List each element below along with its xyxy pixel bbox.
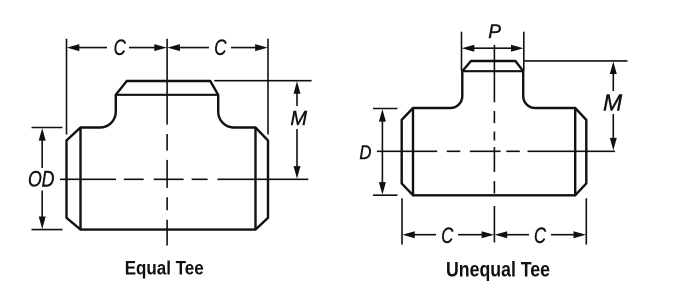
arrowhead M bottom (294, 166, 301, 179)
dimension P right extension line (523, 32, 525, 71)
svg-text:Unequal Tee: Unequal Tee (446, 258, 550, 281)
arrowhead OD top (39, 128, 46, 141)
dimension line C (right fig left half) (413, 234, 483, 236)
unequal tee left weld-bevel line (412, 108, 414, 195)
dimension C right extension line (267, 39, 269, 135)
arrowhead C3 left (402, 231, 415, 238)
dimension D bottom tick (373, 194, 398, 196)
arrowhead P left (462, 45, 475, 52)
svg-text:M: M (603, 90, 623, 116)
dimension line C (left half) (78, 47, 156, 49)
arrowhead D top (379, 109, 386, 122)
unequal tee horizontal centerline (377, 150, 615, 152)
arrowhead C4 right (574, 231, 587, 238)
svg-text:M: M (290, 108, 307, 130)
dimension line M vertical (296, 93, 298, 168)
svg-text:OD: OD (28, 167, 55, 192)
svg-text:C: C (441, 223, 453, 248)
dimension P left extension line (461, 32, 463, 71)
arrowhead M bottom (right figure) (610, 138, 617, 151)
arrowhead OD bottom (39, 217, 46, 230)
arrowhead D bottom (379, 182, 386, 195)
arrowhead C2 left (167, 44, 180, 51)
equal tee body outline (67, 81, 269, 230)
dimension C right extension line (right figure) (585, 198, 587, 244)
equal tee horizontal centerline (60, 178, 308, 180)
arrowhead C1 right (154, 44, 167, 51)
dimension OD top tick (32, 127, 63, 129)
dimension line P (473, 47, 512, 49)
equal tee vertical centerline (166, 39, 168, 246)
dimension M top extension line (214, 80, 311, 82)
unequal tee body outline (402, 61, 587, 195)
svg-text:C: C (534, 223, 546, 248)
dimension line C (right half) (179, 47, 257, 49)
equal tee left weld-bevel line (79, 128, 81, 230)
unequal tee right weld-bevel line (574, 108, 576, 195)
arrowhead M top (right figure) (610, 62, 617, 75)
dimension line M vertical (right figure) (612, 73, 614, 140)
dimension C left extension line (right figure) (401, 198, 403, 244)
svg-text:P: P (488, 22, 501, 43)
equal tee right weld-bevel line (254, 128, 256, 230)
equal tee branch weld-bevel line (116, 94, 218, 96)
arrowhead C2 right (255, 44, 268, 51)
arrowhead C1 left (67, 44, 80, 51)
svg-text:C: C (114, 35, 127, 60)
svg-text:C: C (214, 35, 227, 60)
dimension OD bottom tick (32, 229, 63, 231)
svg-text:Equal Tee: Equal Tee (125, 258, 204, 280)
dimension line OD vertical (41, 139, 43, 218)
dimension line C (right fig right half) (506, 234, 576, 236)
dimension D top tick (373, 108, 398, 110)
unequal tee vertical centerline (493, 45, 495, 243)
arrowhead C4 left (495, 231, 508, 238)
dimension M top extension line (right figure) (524, 60, 628, 62)
dimension C left extension line (66, 39, 68, 135)
arrowhead P right (511, 45, 524, 52)
arrowhead C3 right (482, 231, 495, 238)
arrowhead M top (294, 81, 301, 94)
unequal tee branch weld-bevel line (462, 70, 523, 72)
svg-text:D: D (359, 143, 371, 164)
dimension line D vertical (381, 120, 383, 184)
